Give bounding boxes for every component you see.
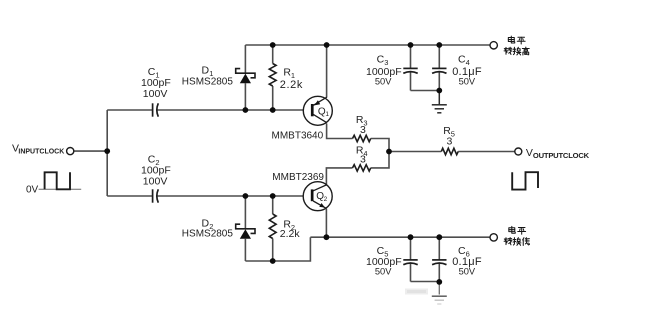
svg-text:50V: 50V	[459, 76, 476, 86]
svg-text:D: D	[202, 218, 210, 230]
svg-text:2.2k: 2.2k	[280, 228, 301, 240]
svg-text:1: 1	[325, 111, 329, 118]
svg-text:HSMS2805: HSMS2805	[182, 76, 234, 87]
svg-text:50V: 50V	[375, 267, 392, 277]
svg-text:INPUTCLOCK: INPUTCLOCK	[18, 149, 64, 156]
svg-text:OUTPUTCLOCK: OUTPUTCLOCK	[533, 151, 590, 160]
svg-text:3: 3	[360, 124, 366, 136]
svg-text:50V: 50V	[459, 267, 476, 277]
svg-text:V: V	[526, 147, 533, 159]
svg-text:0V: 0V	[26, 185, 39, 196]
svg-text:MMBT2369: MMBT2369	[272, 172, 324, 183]
svg-text:HSMS2805: HSMS2805	[182, 229, 234, 240]
svg-text:50V: 50V	[375, 76, 392, 86]
svg-text:2.2k: 2.2k	[280, 79, 303, 91]
svg-text:MMBT3640: MMBT3640	[272, 131, 324, 142]
svg-text:2: 2	[324, 196, 328, 203]
svg-text:3: 3	[447, 136, 453, 148]
svg-text:100V: 100V	[143, 175, 168, 187]
svg-text:D: D	[202, 64, 210, 76]
svg-text:3: 3	[360, 154, 366, 166]
svg-text:100V: 100V	[143, 88, 168, 100]
